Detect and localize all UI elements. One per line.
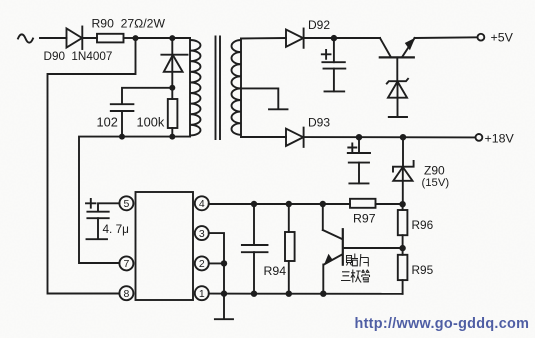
IC U1 body [136,192,194,300]
svg-text:R90 27Ω/2W: R90 27Ω/2W [92,17,166,31]
junction dot cap 102 bottom [119,134,125,140]
junction dot +18V cap node [356,134,362,140]
ground (pin 1 rail) [215,318,233,320]
label chip transistor (Chinese) line 1 [347,254,369,267]
ground (+18V filter cap) [349,182,368,184]
snubber diode (across primary) [161,55,187,88]
pin 8 [119,286,133,300]
svg-text:100k: 100k [137,115,165,130]
pin 3 [195,226,209,240]
wire secondary bottom to D93 anode [241,136,286,138]
junction dot Z90 top node [400,134,406,140]
resistor R94 [285,204,295,294]
junction dot C94 bottom [251,291,257,297]
junction dot +5V cap node [331,35,337,41]
transistor Q1 (series pass, +5V) [380,38,415,81]
svg-text:5: 5 [123,198,129,210]
svg-text:Z90: Z90 [424,164,445,178]
capacitor +5V filter [322,38,346,91]
svg-text:+18V: +18V [485,132,515,146]
ground (+5V filter cap) [325,90,345,92]
wire R90 to node A [124,37,136,39]
svg-text:R95: R95 [412,263,434,277]
junction dot pin4-rail at Z90 / R96 [399,201,405,207]
junction dot pin4-rail at Q2 collector [320,201,326,207]
ground (4.7u cap) [87,238,108,240]
svg-text:4: 4 [199,198,205,210]
capacitor 4.7u [86,199,109,239]
svg-text:8: 8 [123,288,129,300]
capacitor C 102 [111,104,134,136]
junction dot pin3/pin2 [221,260,227,266]
transformer T1 secondary winding [232,39,242,138]
wire node C left to capacitor 102 [122,88,172,104]
junction dot pin4-rail at R94 [286,201,292,207]
wire D90 cathode to R90 [82,37,97,39]
wire pin 1 rail [209,293,403,295]
svg-text:R94: R94 [264,264,287,278]
wire pin 5 to 4.7u cap [98,203,119,211]
capacitor +18V filter [348,137,370,183]
wire AC input to D90 anode [40,37,67,39]
AC input source symbol [18,34,33,42]
wire secondary top to D92 anode [241,37,286,40]
wire pin 2 [209,262,224,264]
junction dot pin3/pin1 [221,290,227,296]
svg-text:4. 7μ: 4. 7μ [103,222,129,236]
node B junction dot [169,35,175,41]
svg-text:(15V): (15V) [422,177,450,189]
junction dot Q2 emitter [320,291,326,297]
resistor R97 [350,199,376,208]
svg-text:http://www.go-gddq.com: http://www.go-gddq.com [355,316,530,332]
svg-text:1: 1 [199,288,205,300]
svg-text:R96: R96 [412,218,434,232]
resistor R96 [398,204,408,248]
svg-text:3: 3 [199,228,205,240]
ground (secondary center tap) [269,108,288,110]
junction dot R94 bottom [286,291,292,297]
wire primary bottom rail down to pin 7 of U1 [79,137,190,263]
wire ground stub below pin1 rail [223,294,225,319]
resistor R95 [398,248,408,294]
wire Q1 emitter to +5V terminal [415,36,478,39]
wire node A to node B to transformer primary top [136,37,191,39]
+18V output terminal [476,134,483,141]
transistor Q2 (chip transistor) [323,204,343,294]
diode D92 [286,29,304,48]
zener diode Z90 [393,137,414,204]
transformer T1 primary winding [190,38,201,137]
wire D93 cathode to +18V terminal [304,136,476,138]
pin 2 [195,256,209,270]
wire pin 3 down to pin 1 rail [209,233,224,294]
pin 7 [119,256,133,270]
pin 5 [119,196,133,210]
junction dot 100k bottom [169,134,175,140]
svg-text:D90 1N4007: D90 1N4007 [44,50,113,63]
junction dot R96/R95/base [399,245,405,251]
wire node A down and left to pin 8 of U1 [48,38,136,294]
wire pin 4 rail [209,203,403,205]
resistor 100k [168,88,178,137]
svg-text:R97: R97 [353,212,376,226]
transformer T1 core [216,37,221,140]
wire node B down to snubber diode cathode [171,38,173,55]
svg-text:7: 7 [123,258,129,270]
pin 4 [195,196,209,210]
junction dot pin4-rail at C94 [251,201,257,207]
wire D92 cathode to Q1 collector [304,37,380,39]
svg-text:102: 102 [97,115,118,130]
+5V output terminal [478,34,485,41]
svg-text:2: 2 [199,258,205,270]
zener diode (Q1 base reference) [387,79,408,117]
wire secondary center tap [241,88,278,109]
diode D90 [67,27,83,50]
capacitor C94 [242,204,268,294]
svg-text:D93: D93 [308,116,330,130]
svg-text:D92: D92 [308,18,330,32]
pin 1 [195,286,209,300]
node A junction dot [133,35,139,41]
node C junction dot [169,85,175,91]
svg-text:+5V: +5V [491,31,514,45]
resistor R90 [97,34,124,43]
wire Q2 base to R96/R95 node [345,247,403,249]
diode D93 [286,128,304,147]
ground (Q1 base zener) [389,116,407,118]
label chip transistor (Chinese) line 2 [341,270,370,283]
